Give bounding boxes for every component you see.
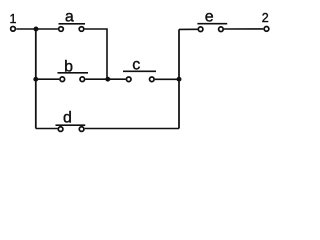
terminal 2 <box>264 27 269 32</box>
contact a <box>59 27 84 32</box>
contact e bar <box>197 23 227 25</box>
contact b <box>60 77 85 82</box>
wire contact b to contact c <box>85 78 125 80</box>
svg-text:1: 1 <box>10 12 17 26</box>
wire corner to contact e <box>179 28 198 30</box>
wire contact c to J4 <box>155 78 179 80</box>
terminal 1 <box>11 26 16 31</box>
wire right vertical <box>178 29 180 128</box>
contact a bar <box>59 23 86 25</box>
svg-text:2: 2 <box>262 11 269 25</box>
wire contact d to right corner <box>85 128 179 130</box>
contact b bar <box>58 72 89 74</box>
wire left vertical <box>35 29 37 129</box>
wire terminal1 to contact a <box>16 28 58 30</box>
svg-text:d: d <box>63 110 72 127</box>
wire contact a to corner <box>85 29 107 78</box>
contact c <box>126 77 154 82</box>
wire contact e to terminal 2 <box>224 28 263 30</box>
node junction J1 <box>34 27 39 32</box>
node junction J3 <box>33 77 38 82</box>
contact e <box>198 27 223 32</box>
contact c bar <box>123 70 156 72</box>
contact d <box>58 127 84 132</box>
node junction J4 <box>177 77 182 82</box>
contact d bar <box>56 124 86 126</box>
wire J3 to contact b <box>36 78 59 80</box>
node junction J2 <box>105 77 110 82</box>
wire bottom left corner to contact d <box>36 128 58 130</box>
